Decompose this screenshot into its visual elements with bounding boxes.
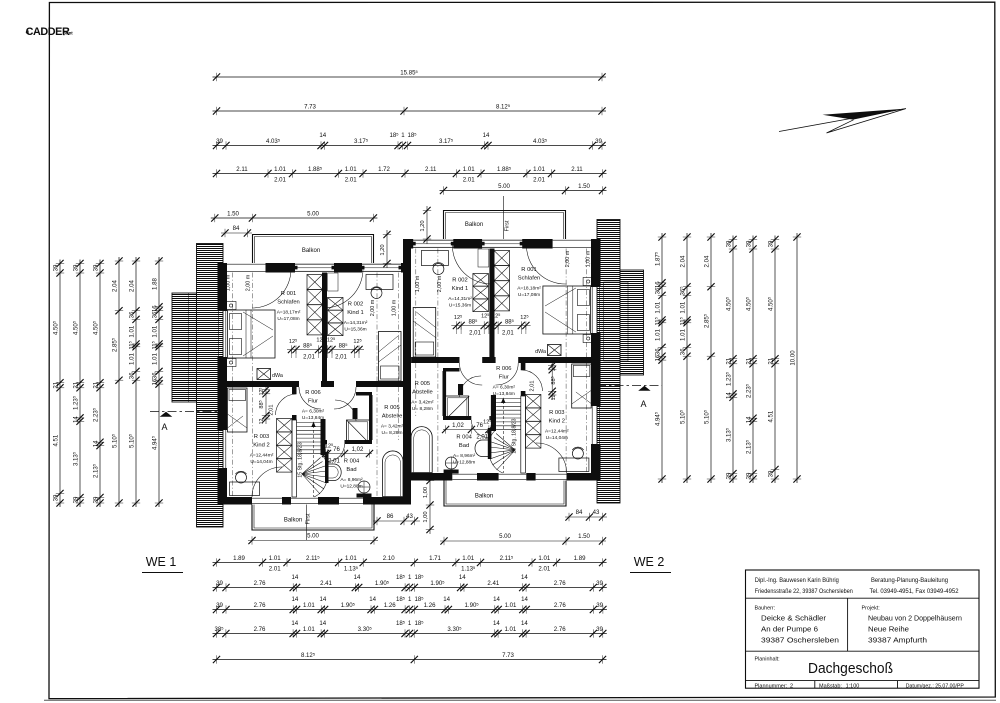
unit1 chair Kind2 <box>236 472 247 483</box>
unit1 south window Bad <box>339 497 363 499</box>
svg-text:A= 3,42m²: A= 3,42m² <box>411 400 434 406</box>
right chain 5 <box>745 236 758 484</box>
dim 86/43 unit1 south <box>373 513 420 525</box>
svg-text:Schlafen: Schlafen <box>277 300 300 306</box>
room label R 006 Flur unit2 <box>493 366 516 397</box>
left chain 5 <box>128 257 141 507</box>
svg-text:Balkon: Balkon <box>465 222 483 228</box>
svg-text:An der Pumpe 6: An der Pumpe 6 <box>761 625 818 634</box>
svg-text:39: 39 <box>216 580 223 587</box>
unit1 double bed Schlafen <box>228 310 276 358</box>
right chain 7 total 10.00 <box>789 233 801 483</box>
dim 1.20 unit2 balcony depth <box>420 206 431 244</box>
unit1 south window stairwell <box>291 497 318 499</box>
unit2 Bad door dimension <box>442 419 495 441</box>
unit2 Abstelle north wall stub <box>443 368 460 372</box>
svg-text:R 001: R 001 <box>521 267 536 273</box>
unit1 wardrobe Schlafen <box>307 275 323 335</box>
left chain 6 <box>151 257 164 507</box>
svg-text:1.01: 1.01 <box>303 602 315 609</box>
svg-text:39: 39 <box>52 494 59 501</box>
svg-text:dWa: dWa <box>272 373 283 379</box>
svg-text:A= 6,30m²: A= 6,30m² <box>493 385 516 391</box>
room label R 001 Schlafen unit2 <box>517 267 541 298</box>
unit1 Abstelle north wall stub <box>356 392 372 396</box>
svg-text:U=15,36m: U=15,36m <box>344 327 366 333</box>
dim 7.73 / 8.125 <box>213 103 607 115</box>
unit2 east exterior wall <box>591 239 601 287</box>
svg-text:2.76: 2.76 <box>254 626 266 633</box>
dim unit1 balcony <box>211 210 378 222</box>
svg-text:Plannummer:: Plannummer: <box>755 683 788 689</box>
unit2 wardrobe Schlafen <box>494 251 510 311</box>
svg-text:U=12,88m: U=12,88m <box>340 484 362 490</box>
roof height line 1.00m east unit2 <box>586 249 588 474</box>
svg-text:36: 36 <box>128 372 135 379</box>
svg-text:A: A <box>640 399 646 409</box>
balcony unit2 north <box>444 211 566 240</box>
svg-text:39: 39 <box>72 496 79 503</box>
svg-text:1.71: 1.71 <box>429 555 441 562</box>
unit2 door arc Schlafen balcony <box>526 245 566 284</box>
svg-text:39387 Ampfurth: 39387 Ampfurth <box>868 636 927 645</box>
svg-text:36: 36 <box>151 372 158 379</box>
unit1 west window Kind2 <box>218 430 220 468</box>
svg-text:39: 39 <box>596 602 603 609</box>
svg-text:1.72: 1.72 <box>378 166 390 173</box>
svg-text:39: 39 <box>596 580 603 587</box>
balcony unit1 south <box>252 505 374 531</box>
unit2 Kind2 door dimension (vertical) <box>530 362 558 400</box>
svg-text:2.01: 2.01 <box>269 566 281 573</box>
svg-text:1.01: 1.01 <box>274 166 286 173</box>
svg-text:4.51: 4.51 <box>767 410 774 422</box>
svg-text:R 002: R 002 <box>348 302 363 308</box>
right chain 3 <box>703 233 716 483</box>
svg-text:36: 36 <box>654 348 661 355</box>
right chain 2 <box>679 233 692 483</box>
svg-text:2,00 m: 2,00 m <box>565 250 571 267</box>
unit2 desk Kind1 <box>421 251 448 266</box>
unit2 bed Kind2 <box>572 364 592 408</box>
unit1 west window Schlafen <box>218 311 220 357</box>
svg-text:39: 39 <box>745 472 752 479</box>
svg-text:Datum/gez.: 25.07.00/PP: Datum/gez.: 25.07.00/PP <box>906 683 964 689</box>
svg-text:1.89: 1.89 <box>233 555 245 562</box>
svg-text:12: 12 <box>551 395 557 401</box>
label WE 2 <box>630 555 671 573</box>
svg-text:1.01: 1.01 <box>654 328 661 340</box>
svg-text:U=12,88m: U=12,88m <box>453 460 475 466</box>
roof height line 1.00m west unit2 <box>415 249 417 417</box>
svg-text:2: 2 <box>790 683 793 689</box>
svg-text:2.76: 2.76 <box>554 602 566 609</box>
svg-text:1.01: 1.01 <box>533 166 545 173</box>
roof height line 2.00m west unit1 <box>252 273 254 498</box>
svg-text:14: 14 <box>92 440 99 447</box>
unit1 staircase <box>297 422 328 498</box>
unit2 toilet <box>445 457 457 469</box>
unit1 desk Kind1 <box>366 275 393 290</box>
unit1 wall Schlafen/Kind1 <box>322 273 327 388</box>
svg-text:U=17,08m: U=17,08m <box>518 292 540 298</box>
unit1 west exterior wall <box>218 263 228 311</box>
unit2 washing machine dWa <box>548 345 562 356</box>
svg-text:1:100: 1:100 <box>846 683 860 689</box>
svg-text:1,00 m: 1,00 m <box>392 299 398 316</box>
right chain 4 <box>725 236 738 484</box>
unit1 north balcony door Kind1 threshold <box>362 263 401 265</box>
svg-text:1.01: 1.01 <box>505 602 517 609</box>
svg-text:Projekt:: Projekt: <box>862 606 880 612</box>
room label R 001 Schlafen unit1 <box>277 291 301 322</box>
unit2 bed Kind1 <box>413 308 436 358</box>
svg-text:14: 14 <box>292 596 299 603</box>
svg-text:Balkon: Balkon <box>284 518 302 524</box>
svg-text:14: 14 <box>725 392 732 399</box>
svg-text:14: 14 <box>369 596 376 603</box>
room label R 005 Abstelle unit2 <box>411 381 434 412</box>
unit2 wardrobe Kind1 <box>473 274 489 312</box>
svg-text:2,00 m: 2,00 m <box>246 274 252 291</box>
roof height line 2.00m east unit2 <box>565 249 567 474</box>
room label R 004 Bad unit2 <box>453 435 476 466</box>
dim rooms bottom row4 <box>213 620 607 638</box>
svg-text:39: 39 <box>745 240 752 247</box>
unit2 desk Kind2 <box>559 458 589 472</box>
unit1 desk Kind2 <box>230 482 260 496</box>
svg-text:36: 36 <box>654 287 661 294</box>
svg-text:1,00: 1,00 <box>423 511 429 522</box>
svg-text:2,01: 2,01 <box>335 355 347 361</box>
svg-text:2.01: 2.01 <box>274 177 286 184</box>
svg-text:print: print <box>63 31 73 36</box>
svg-text:1.26: 1.26 <box>384 602 396 609</box>
unit2 east window Schlafen <box>591 287 593 333</box>
svg-text:1.01: 1.01 <box>538 555 550 562</box>
svg-text:R 006: R 006 <box>496 366 511 372</box>
dim 5.00/1.50 unit2 south balcony <box>440 533 606 545</box>
svg-text:Beratung-Planung-Bauleitung: Beratung-Planung-Bauleitung <box>871 577 949 584</box>
unit1 bedside tables <box>227 302 237 310</box>
svg-text:14: 14 <box>319 620 326 627</box>
svg-text:2,01: 2,01 <box>469 331 481 337</box>
svg-text:1.01: 1.01 <box>654 301 661 313</box>
left chain 1 <box>52 260 65 508</box>
svg-text:16: 16 <box>654 354 661 361</box>
unit1 interior door dimension 12/88/12 cluster <box>287 337 364 361</box>
unit1 Bad door dimension <box>322 443 373 465</box>
unit1 north exterior wall <box>218 263 227 273</box>
svg-text:84: 84 <box>576 509 583 516</box>
unit2 door arc Bad <box>471 420 489 438</box>
svg-text:21: 21 <box>767 357 774 364</box>
svg-text:1,00: 1,00 <box>423 487 429 498</box>
svg-text:Balkon: Balkon <box>475 494 493 500</box>
unit1 door arc Kind2 <box>276 394 297 415</box>
unit2 balcony door leaf Schlafen <box>479 240 525 247</box>
ridge line First unit2 <box>503 196 505 239</box>
unit1 bathtub <box>383 451 404 497</box>
svg-text:1,02: 1,02 <box>452 423 464 429</box>
svg-text:14: 14 <box>493 620 500 627</box>
svg-text:1.01: 1.01 <box>679 301 686 313</box>
unit1 wall Kind2/Flur segments <box>292 387 297 394</box>
unit2 south exterior wall <box>403 473 452 481</box>
svg-text:21: 21 <box>92 381 99 388</box>
svg-text:1,20: 1,20 <box>420 220 426 231</box>
right chain 6 <box>767 236 780 484</box>
svg-text:1.50: 1.50 <box>227 210 239 217</box>
balcony unit2 south <box>444 481 566 507</box>
svg-text:1.01: 1.01 <box>504 626 516 633</box>
svg-text:16: 16 <box>151 305 158 312</box>
svg-text:1: 1 <box>408 574 412 581</box>
ridge line First unit1 <box>306 505 308 541</box>
unit1 bed Kind1 <box>379 332 402 382</box>
svg-text:2.76: 2.76 <box>554 580 566 587</box>
svg-text:Balkon: Balkon <box>302 248 320 254</box>
svg-text:WE 2: WE 2 <box>634 555 665 569</box>
svg-text:15 Stg. 18,8/23: 15 Stg. 18,8/23 <box>298 442 304 477</box>
svg-text:2.11: 2.11 <box>236 166 248 173</box>
dim openings bottom <box>213 554 607 572</box>
svg-text:Neue Reihe: Neue Reihe <box>868 625 909 634</box>
svg-text:2.41: 2.41 <box>320 580 332 587</box>
svg-text:Dachgeschoß: Dachgeschoß <box>808 660 893 677</box>
svg-text:A=14,31m²: A=14,31m² <box>448 296 472 302</box>
svg-text:U=13,84m: U=13,84m <box>302 415 324 421</box>
svg-text:Bad: Bad <box>459 443 469 449</box>
svg-text:14: 14 <box>319 132 326 139</box>
svg-text:2,01: 2,01 <box>530 381 536 392</box>
roof height line 2.00m east unit1 <box>376 273 378 498</box>
svg-text:5.00: 5.00 <box>307 533 319 540</box>
svg-text:U=15,36m: U=15,36m <box>449 303 471 309</box>
unit2 door arc Kind2 balcony <box>536 443 567 473</box>
svg-text:1.88: 1.88 <box>151 277 158 289</box>
title block architect row <box>755 577 959 595</box>
title block bottom row <box>755 683 965 689</box>
unit2 north balcony door Schlafen threshold <box>482 239 522 241</box>
svg-text:14: 14 <box>521 574 528 581</box>
svg-text:16: 16 <box>654 281 661 288</box>
svg-text:A=12,44m²: A=12,44m² <box>250 453 274 459</box>
unit2 bedside tables <box>583 278 593 286</box>
unit2 stairwell west wall <box>491 395 496 431</box>
roof height line 2.00m west unit2 <box>437 249 439 474</box>
title block Bauherr cell <box>755 606 840 645</box>
room label R 003 Kind 2 unit2 <box>545 410 569 441</box>
unit1 stairwell west wall <box>292 420 297 497</box>
svg-text:R 003: R 003 <box>549 410 564 416</box>
svg-text:14: 14 <box>291 620 298 627</box>
svg-text:2.04: 2.04 <box>128 279 135 291</box>
svg-text:2.11: 2.11 <box>425 166 437 173</box>
svg-text:Deicke & Schädler: Deicke & Schädler <box>761 614 827 623</box>
svg-text:1.01: 1.01 <box>128 325 135 337</box>
unit2 double bed Schlafen <box>543 286 591 334</box>
svg-text:14: 14 <box>745 416 752 423</box>
right roof hatch band (wide) <box>620 270 644 375</box>
svg-text:39: 39 <box>596 626 603 633</box>
svg-text:Neubau von 2 Doppelhäusern: Neubau von 2 Doppelhäusern <box>868 614 962 623</box>
svg-text:A= 8,96m²: A= 8,96m² <box>453 453 476 459</box>
svg-text:Bad: Bad <box>346 467 356 473</box>
svg-text:1.26: 1.26 <box>424 602 436 609</box>
unit2 Kind1 niche <box>478 249 489 267</box>
svg-text:2.01: 2.01 <box>345 177 357 184</box>
unit2 staircase <box>489 398 521 474</box>
label WE 1 <box>142 555 183 573</box>
svg-text:1.01: 1.01 <box>269 555 281 562</box>
unit1 shower <box>347 420 370 444</box>
svg-text:2.01: 2.01 <box>463 177 475 184</box>
dim totals bottom <box>213 651 607 663</box>
title block Planinhalt cell <box>755 657 894 678</box>
svg-text:36: 36 <box>151 311 158 318</box>
svg-text:2.01: 2.01 <box>538 566 550 573</box>
svg-text:2,01: 2,01 <box>476 435 488 441</box>
svg-text:Flur: Flur <box>499 375 509 381</box>
unit1 south exterior wall <box>218 497 253 505</box>
svg-text:39: 39 <box>725 240 732 247</box>
svg-text:Kind 2: Kind 2 <box>549 419 565 425</box>
dim rooms bottom row2 <box>213 574 607 592</box>
svg-text:Bauherr:: Bauherr: <box>755 606 776 612</box>
svg-text:A=18,17m²: A=18,17m² <box>277 310 301 316</box>
svg-text:14: 14 <box>459 574 466 581</box>
unit1 north window Schlafen <box>226 263 265 265</box>
svg-text:39: 39 <box>216 602 223 609</box>
svg-text:R 001: R 001 <box>281 291 296 297</box>
svg-text:39: 39 <box>767 470 774 477</box>
svg-text:1,00 m: 1,00 m <box>586 250 592 267</box>
dim unit2 balcony <box>440 183 607 195</box>
svg-text:A=14,31m²: A=14,31m² <box>344 320 368 326</box>
right hatch inner rectangle <box>604 282 629 361</box>
svg-text:1.01: 1.01 <box>151 325 158 337</box>
svg-text:7.73: 7.73 <box>502 652 514 659</box>
svg-text:2,00 m: 2,00 m <box>437 275 443 292</box>
svg-text:Dipl.-Ing. Bauwesen Karin Bühr: Dipl.-Ing. Bauwesen Karin Bührig <box>755 577 840 584</box>
right chain 1 <box>654 233 667 483</box>
room label R 003 Kind 2 unit1 <box>250 434 274 465</box>
unit2 north balcony door Kind1 threshold <box>413 239 453 241</box>
svg-text:R 006: R 006 <box>305 390 320 396</box>
unit1 door arc Kind1 balcony <box>324 269 363 308</box>
svg-text:1.01: 1.01 <box>303 626 315 633</box>
unit1 toilet <box>358 481 370 493</box>
svg-text:5.00: 5.00 <box>499 533 511 540</box>
dim openings top <box>213 165 607 183</box>
svg-text:39: 39 <box>725 472 732 479</box>
room label R 005 Abstelle unit1 <box>381 405 404 436</box>
roof height line 1.00m west unit1 <box>232 273 234 498</box>
unit1 door arc Abstelle <box>335 400 356 421</box>
left chain 2 <box>72 260 85 508</box>
unit1 Kind1 niche <box>328 273 339 291</box>
svg-text:1.01: 1.01 <box>462 555 474 562</box>
svg-text:84: 84 <box>233 225 240 232</box>
svg-text:Maßstab:: Maßstab: <box>819 683 842 689</box>
svg-text:12: 12 <box>259 419 265 425</box>
unit1 washing machine dWa <box>257 369 271 380</box>
svg-text:A=12,44m²: A=12,44m² <box>545 429 569 435</box>
north arrow <box>779 109 906 134</box>
left chain 4 <box>111 257 124 507</box>
unit1 balcony door leaf Kind1 <box>359 264 404 271</box>
unit1 wash basin <box>326 464 342 481</box>
svg-text:U= 8,28m: U= 8,28m <box>412 406 433 412</box>
svg-text:1,02: 1,02 <box>352 447 364 453</box>
unit2 south window Bad <box>452 473 477 475</box>
svg-text:21: 21 <box>72 381 79 388</box>
unit2 north exterior wall <box>411 239 413 249</box>
svg-text:1.50: 1.50 <box>578 183 590 190</box>
svg-text:2,01: 2,01 <box>303 355 315 361</box>
unit2 stairwell east wall <box>521 396 526 473</box>
unit1 Bad north wall segments <box>326 440 328 444</box>
room label R 002 Kind 1 unit1 <box>344 302 368 333</box>
balcony unit1 north <box>253 235 374 264</box>
room label R 002 Kind 1 unit2 <box>448 278 472 309</box>
dim 1.20 unit1 balcony depth <box>380 230 391 268</box>
svg-text:5.00: 5.00 <box>307 210 319 217</box>
unit2 door pillar near Abstelle <box>458 384 463 395</box>
unit1 balcony door leaf Schlafen <box>292 264 337 271</box>
dim 84 unit1 balcony edge <box>221 225 252 237</box>
svg-text:2.11: 2.11 <box>571 166 583 173</box>
svg-text:1.01: 1.01 <box>463 166 475 173</box>
dim 84/43 unit2 south <box>565 509 607 521</box>
svg-text:A= 6,30m²: A= 6,30m² <box>302 409 325 415</box>
svg-text:2.01: 2.01 <box>533 177 545 184</box>
svg-text:Flur: Flur <box>308 399 318 405</box>
svg-text:1.01: 1.01 <box>345 166 357 173</box>
unit2 corridor wall <box>518 357 592 363</box>
svg-text:76: 76 <box>476 423 483 429</box>
room label R 006 Flur unit1 <box>302 390 325 421</box>
svg-text:2.76: 2.76 <box>554 626 566 633</box>
unit1 door arc Schlafen balcony <box>252 269 291 308</box>
svg-text:R 004: R 004 <box>456 435 472 441</box>
svg-text:36: 36 <box>128 311 135 318</box>
right roof hatch band (narrow) <box>597 220 620 504</box>
svg-text:43: 43 <box>406 513 413 520</box>
svg-text:A: A <box>161 422 167 432</box>
left roof hatch band (narrow) <box>197 244 224 528</box>
svg-text:Kind 1: Kind 1 <box>347 310 363 316</box>
dim 1.00/1.00 south step <box>423 476 434 534</box>
svg-text:R 005: R 005 <box>415 381 430 387</box>
left chain 3 <box>92 260 105 508</box>
svg-text:1.01: 1.01 <box>345 555 357 562</box>
unit2 Bad north wall segments <box>489 416 491 420</box>
svg-text:14: 14 <box>443 596 450 603</box>
svg-text:U= 8,28m: U= 8,28m <box>382 430 403 436</box>
svg-text:14: 14 <box>493 596 500 603</box>
svg-text:39: 39 <box>595 138 602 145</box>
unit2 door arc Kind2 <box>521 370 543 391</box>
svg-text:2.10: 2.10 <box>383 555 395 562</box>
room label R 004 Bad unit1 <box>340 459 363 490</box>
unit2 door arc Schlafen/Flur <box>496 363 519 385</box>
unit2 chair Kind2 <box>572 448 583 459</box>
svg-text:Tel. 03949-4951, Fax 03949-495: Tel. 03949-4951, Fax 03949-4952 <box>870 588 960 595</box>
unit1 Abstelle west wall <box>369 395 373 440</box>
svg-text:Planinhalt:: Planinhalt: <box>755 657 780 663</box>
